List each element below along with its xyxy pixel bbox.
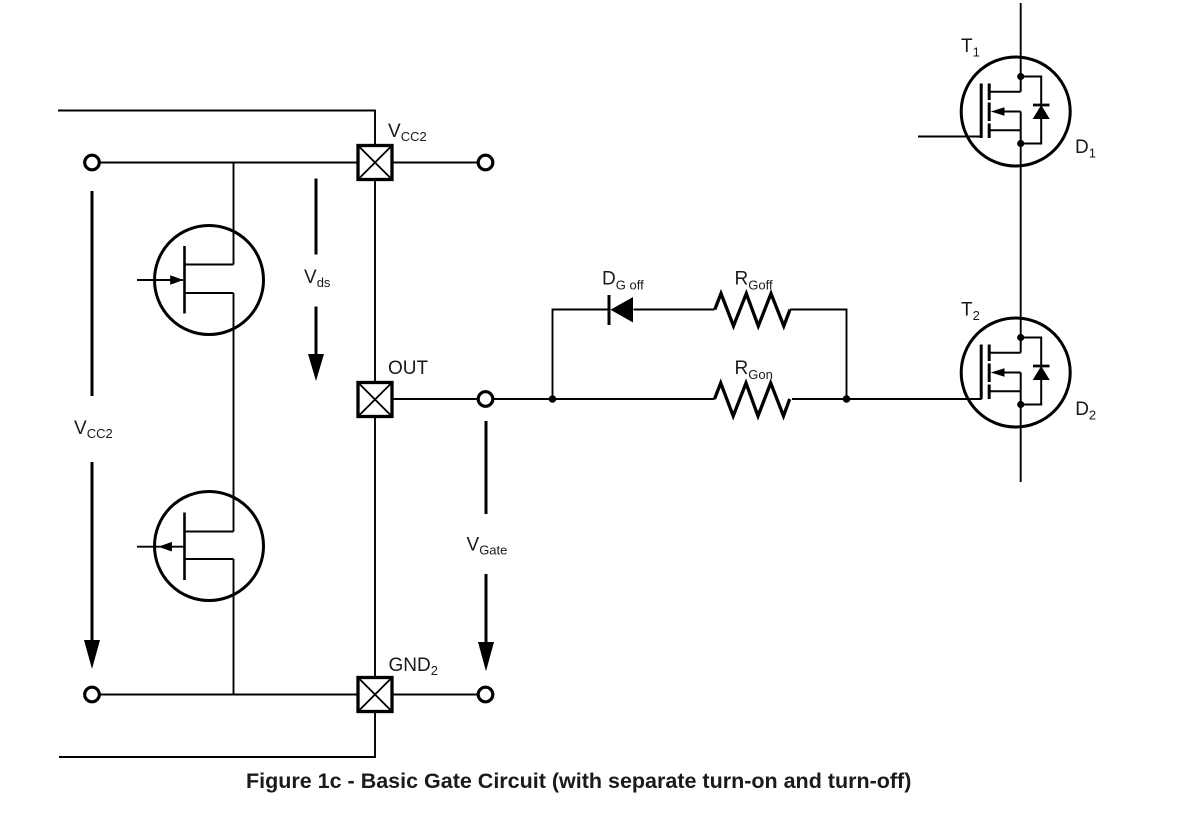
svg-text:Vds: Vds bbox=[304, 267, 331, 290]
svg-text:T2: T2 bbox=[961, 299, 980, 323]
svg-text:VCC2: VCC2 bbox=[388, 121, 427, 144]
svg-text:T1: T1 bbox=[961, 36, 980, 60]
svg-text:GND2: GND2 bbox=[389, 655, 438, 678]
svg-text:D2: D2 bbox=[1075, 399, 1096, 423]
svg-text:VCC2: VCC2 bbox=[74, 418, 113, 441]
svg-text:OUT: OUT bbox=[388, 358, 429, 379]
svg-text:VGate: VGate bbox=[467, 535, 508, 558]
svg-text:RGoff: RGoff bbox=[735, 269, 773, 293]
svg-text:Figure 1c - Basic Gate Circuit: Figure 1c - Basic Gate Circuit (with sep… bbox=[246, 769, 911, 793]
svg-text:RGon: RGon bbox=[735, 358, 773, 382]
svg-text:D1: D1 bbox=[1075, 137, 1096, 161]
svg-text:DG off: DG off bbox=[602, 269, 644, 293]
